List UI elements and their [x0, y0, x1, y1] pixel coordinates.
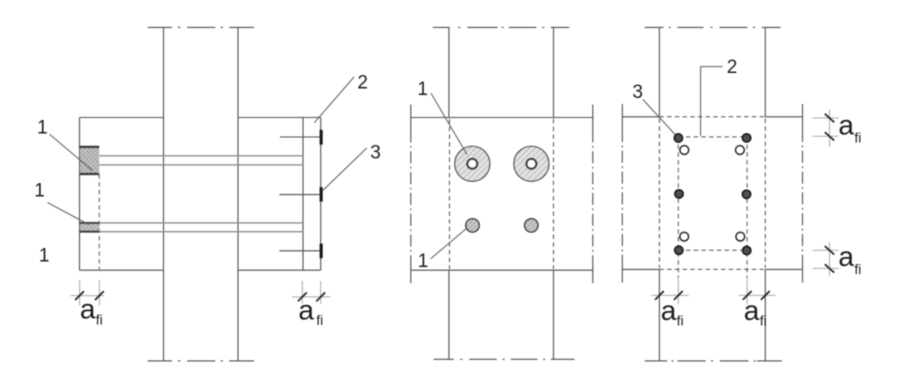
svg-text:1: 1 [418, 251, 429, 272]
svg-text:1: 1 [417, 79, 428, 100]
svg-text:fi: fi [760, 313, 767, 329]
svg-text:2: 2 [357, 72, 368, 93]
svg-text:1: 1 [34, 181, 45, 202]
svg-text:fi: fi [854, 129, 861, 145]
svg-text:a: a [838, 241, 854, 272]
svg-text:1: 1 [37, 118, 48, 139]
svg-text:2: 2 [727, 57, 738, 78]
svg-text:3: 3 [370, 143, 381, 164]
svg-text:a: a [838, 109, 854, 140]
svg-text:fi: fi [96, 312, 103, 328]
svg-text:a: a [298, 295, 314, 326]
svg-text:a: a [80, 294, 96, 325]
svg-text:fi: fi [854, 261, 861, 277]
svg-text:a: a [661, 295, 677, 326]
svg-text:fi: fi [316, 312, 323, 328]
svg-text:1: 1 [39, 245, 50, 266]
svg-text:3: 3 [632, 82, 643, 103]
svg-text:fi: fi [677, 313, 684, 329]
svg-text:a: a [744, 295, 760, 326]
